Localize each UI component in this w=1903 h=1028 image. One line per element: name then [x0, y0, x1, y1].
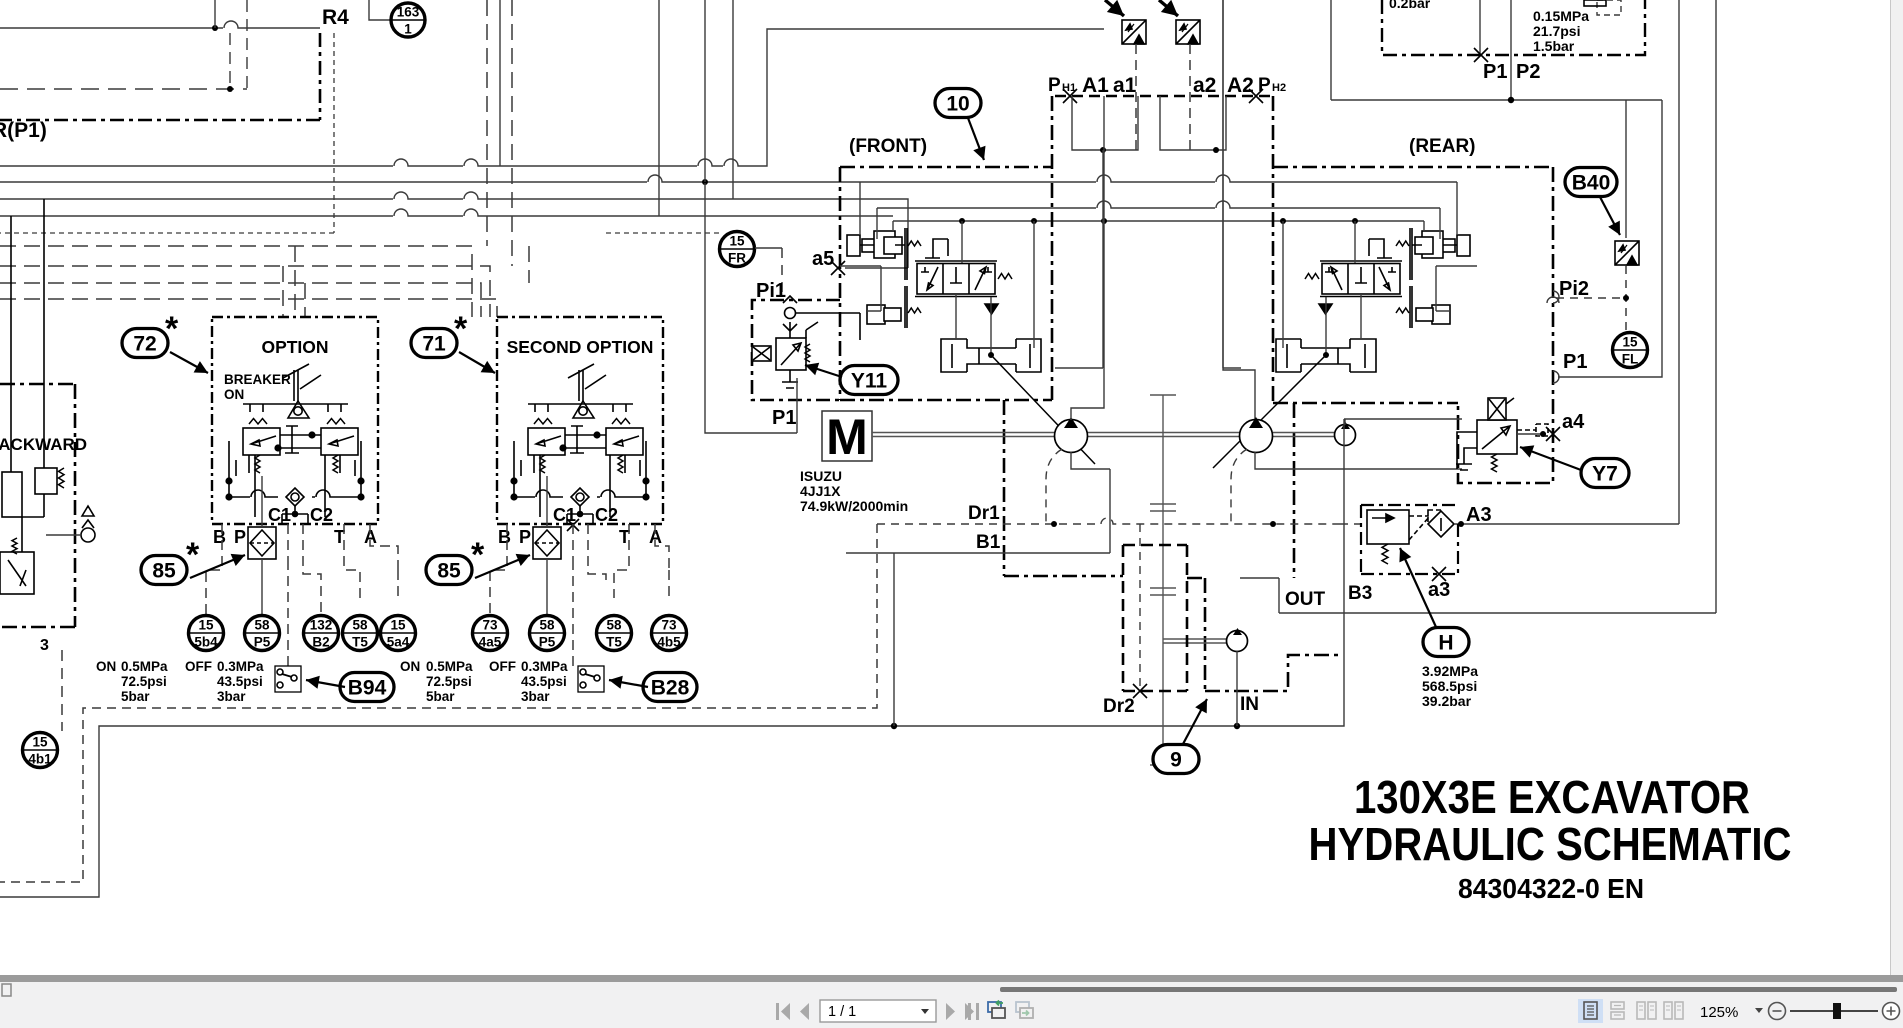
pilot valve group FRONT — [840, 182, 1041, 372]
pump circle front — [1055, 420, 1088, 453]
wire FR to Pi1 — [755, 247, 782, 249]
svg-text:Dr1: Dr1 — [968, 503, 1000, 524]
svg-text:*: * — [471, 536, 485, 574]
svg-text:a3: a3 — [1428, 579, 1450, 601]
svg-text:74.9kW/2000min: 74.9kW/2000min — [800, 498, 908, 514]
svg-text:a2: a2 — [1193, 74, 1216, 97]
svg-text:M: M — [826, 409, 868, 465]
svg-text:1.5bar: 1.5bar — [1533, 38, 1575, 54]
svg-text:58: 58 — [606, 618, 622, 633]
wire drops from OPTION ports — [206, 524, 398, 666]
svg-text:15: 15 — [198, 618, 214, 633]
svg-text:0.5MPa: 0.5MPa — [121, 659, 168, 674]
svg-text:C1: C1 — [553, 505, 576, 525]
pump 2 feedback diagonal — [1323, 352, 1329, 358]
wire bus inner 208 — [877, 201, 1440, 208]
arrow to solenoid a2 — [1159, 0, 1178, 16]
wire bus L4 — [0, 209, 893, 216]
svg-text:4JJ1X: 4JJ1X — [800, 483, 841, 499]
svg-text:15: 15 — [1622, 335, 1638, 350]
connector 163/1 lead — [369, 0, 390, 20]
wire A1 down — [1055, 150, 1103, 368]
motor M box — [822, 411, 872, 461]
wire PH1-PH2 dashed — [1055, 95, 1273, 97]
gearbox boundary — [1123, 545, 1187, 691]
svg-text:(REAR): (REAR) — [1409, 136, 1476, 157]
port labels PH1 A1 a1 a2 A2 PH2 — [1048, 74, 1286, 97]
connector label 163/1 — [391, 3, 425, 37]
valve block BACKWARD — [0, 199, 95, 627]
pump circle rear — [1240, 420, 1273, 453]
svg-text:0.3MPa: 0.3MPa — [521, 659, 568, 674]
wire fine dash toward FR — [606, 232, 723, 234]
arrow B40 — [1600, 197, 1620, 235]
svg-text:4b1: 4b1 — [28, 752, 52, 767]
svg-text:Pi2: Pi2 — [1559, 278, 1589, 300]
wire solid return bottom-left — [0, 613, 1344, 897]
solenoid valve B40 — [1615, 241, 1639, 265]
svg-text:T5: T5 — [606, 635, 622, 650]
svg-text:P: P — [234, 527, 246, 547]
svg-text:A1: A1 — [1082, 74, 1109, 97]
svg-text:72.5psi: 72.5psi — [426, 674, 472, 689]
svg-text:H2: H2 — [1272, 82, 1286, 94]
wire A2 port box — [1160, 96, 1226, 150]
callout B40 — [1565, 168, 1617, 197]
wire A3 — [1454, 0, 1679, 524]
pilot pump circle — [1335, 425, 1356, 446]
arrow B94 — [306, 676, 345, 689]
wire Dr2 dashed drop — [1139, 524, 1141, 691]
wire P1 drop — [705, 183, 797, 433]
top right dash-dot box — [1382, 0, 1645, 55]
svg-text:0.2bar: 0.2bar — [1389, 0, 1431, 11]
svg-text:9: 9 — [1170, 749, 1182, 772]
arrow Y7 — [1520, 445, 1581, 470]
wire a2 dashed drop — [1189, 44, 1191, 150]
svg-text:T5: T5 — [352, 635, 368, 650]
svg-text:B1: B1 — [976, 532, 1001, 553]
relief valve Y11 — [752, 322, 818, 388]
wire bus L2 — [0, 175, 1457, 182]
callout B28 — [643, 673, 697, 702]
svg-text:5bar: 5bar — [426, 689, 455, 704]
svg-text:15: 15 — [32, 735, 48, 750]
svg-text:85: 85 — [152, 560, 176, 583]
connector label 73/4b5 — [652, 616, 687, 651]
wire OUT box — [1240, 578, 1716, 613]
svg-text:21.7psi: 21.7psi — [1533, 23, 1580, 39]
svg-text:*: * — [454, 310, 468, 348]
small relief top right — [1597, 0, 1621, 15]
svg-text:R(P1): R(P1) — [0, 119, 47, 142]
svg-text:3bar: 3bar — [217, 689, 246, 704]
valve block OPTION (72) — [212, 317, 378, 547]
connector label 15/4b1 — [23, 733, 58, 768]
svg-text:P1: P1 — [1563, 351, 1587, 373]
svg-text:0.5MPa: 0.5MPa — [426, 659, 473, 674]
svg-text:OPTION: OPTION — [261, 337, 328, 357]
svg-text:5b4: 5b4 — [194, 635, 218, 650]
wire A2 into pump2 — [1223, 0, 1255, 419]
svg-text:*: * — [186, 536, 200, 574]
connector label 58/T5 left — [343, 616, 378, 651]
callout 71 — [411, 329, 457, 358]
pto pump circle — [1227, 631, 1248, 652]
svg-text:FR: FR — [728, 251, 746, 266]
connector label 15/FL — [1613, 333, 1648, 368]
svg-text:568.5psi: 568.5psi — [1422, 678, 1477, 694]
wire a5 line — [845, 267, 908, 269]
wire A1 into pump1 — [1071, 96, 1104, 420]
wire B1 — [846, 552, 1110, 554]
svg-text:71: 71 — [422, 333, 446, 356]
filter 85 under SECOND OPTION P — [533, 527, 561, 559]
pressure switch B94 — [275, 666, 301, 692]
svg-text:ON: ON — [400, 659, 420, 674]
svg-text:Dr2: Dr2 — [1103, 696, 1135, 717]
svg-text:4b5: 4b5 — [657, 635, 681, 650]
callout Y11 — [840, 366, 898, 395]
svg-text:15: 15 — [390, 618, 406, 633]
svg-text:5a4: 5a4 — [387, 635, 410, 650]
wire right border tall — [1715, 0, 1717, 613]
svg-text:C1: C1 — [268, 505, 291, 525]
label 0.15MPa — [1533, 8, 1589, 54]
svg-text:0.15MPa: 0.15MPa — [1533, 8, 1589, 24]
svg-text:B: B — [498, 527, 511, 547]
wire a1 dashed drop — [1135, 44, 1137, 150]
wire bus L3 — [0, 192, 908, 268]
engine label ISUZU — [800, 468, 908, 514]
wire Dr rear dashed to H — [1340, 523, 1367, 525]
svg-text:SECOND OPTION: SECOND OPTION — [507, 337, 654, 357]
pressure switch B28 — [578, 666, 604, 692]
wire Pi2 dashed — [1556, 266, 1626, 332]
svg-text:84304322-0 EN: 84304322-0 EN — [1458, 873, 1644, 904]
connector label 58/P5 left — [245, 616, 280, 651]
callout 10 — [935, 89, 981, 118]
arrow 10 — [968, 118, 986, 160]
svg-text:3bar: 3bar — [521, 689, 550, 704]
svg-text:HYDRAULIC SCHEMATIC: HYDRAULIC SCHEMATIC — [1309, 818, 1792, 870]
wire pilot feeders F — [859, 182, 861, 235]
pump 1 feedback diagonal — [988, 352, 994, 358]
svg-text:43.5psi: 43.5psi — [217, 674, 263, 689]
svg-text:P: P — [1048, 75, 1061, 96]
svg-text:0.3MPa: 0.3MPa — [217, 659, 264, 674]
callout 85 left — [141, 556, 187, 585]
callout H — [1423, 628, 1469, 657]
svg-text:72: 72 — [133, 333, 156, 356]
wire IN drop — [1236, 651, 1238, 726]
gear shaft vertical — [1150, 395, 1226, 765]
svg-text:OUT: OUT — [1285, 589, 1326, 610]
svg-text:P1: P1 — [772, 407, 796, 429]
svg-text:ISUZU: ISUZU — [800, 468, 842, 484]
check valve Pi1 — [783, 296, 860, 340]
svg-text:73: 73 — [661, 618, 677, 633]
wire to 15/4b1 — [61, 650, 63, 731]
svg-text:ON: ON — [96, 659, 116, 674]
svg-text:OFF: OFF — [489, 659, 516, 674]
svg-text:P1: P1 — [1483, 61, 1507, 83]
svg-text:3: 3 — [40, 637, 49, 654]
svg-text:3.92MPa: 3.92MPa — [1422, 663, 1478, 679]
svg-text:B40: B40 — [1572, 172, 1611, 195]
wire Dr1 dashed — [877, 518, 1340, 524]
wire A1 port box — [1072, 96, 1138, 150]
valve block Pi1/Y11 — [752, 300, 840, 400]
connector label 15/5a4 — [381, 616, 416, 651]
svg-text:R4: R4 — [322, 6, 349, 29]
wire R4 fine dashed vertical — [0, 33, 334, 233]
callout Y7 — [1581, 459, 1629, 488]
wire drops from SECOND OPTION ports — [490, 524, 669, 666]
callout 9 — [1153, 745, 1199, 774]
svg-text:B: B — [213, 527, 226, 547]
svg-text:132: 132 — [310, 618, 333, 633]
callout B94 — [340, 673, 394, 702]
svg-text:B3: B3 — [1348, 583, 1372, 604]
svg-text:4a5: 4a5 — [479, 635, 502, 650]
svg-text:ON: ON — [224, 387, 244, 402]
connector label 58/T5 right — [597, 616, 632, 651]
wire P drop SECOND OPTION — [546, 476, 548, 615]
pump unit 10 boundary — [840, 96, 1553, 691]
svg-text:C2: C2 — [310, 505, 333, 525]
svg-text:130X3E EXCAVATOR: 130X3E EXCAVATOR — [1354, 771, 1750, 823]
wire riser right of second option — [893, 553, 895, 726]
arrow to solenoid a1 — [1105, 0, 1124, 16]
svg-text:B94: B94 — [348, 677, 387, 700]
svg-text:IN: IN — [1240, 694, 1259, 715]
wire P1 loop — [1331, 0, 1662, 377]
svg-text:FL: FL — [1622, 352, 1639, 367]
callout 85 right — [426, 556, 472, 585]
svg-text:10: 10 — [946, 93, 969, 116]
solenoid valve a1 — [1122, 20, 1146, 44]
svg-text:1: 1 — [404, 22, 412, 37]
svg-text:a1: a1 — [1113, 74, 1137, 97]
regulator H — [1367, 510, 1442, 544]
svg-text:OFF: OFF — [185, 659, 212, 674]
connector label 132/B2 — [304, 616, 339, 651]
svg-text:P5: P5 — [539, 635, 556, 650]
wire dashed enclosure bottom-left — [0, 524, 877, 882]
svg-text:a4: a4 — [1562, 411, 1585, 433]
arrow 85 left — [190, 554, 245, 578]
svg-text:43.5psi: 43.5psi — [521, 674, 567, 689]
connector label 58/P5 right — [530, 616, 565, 651]
arrow 85 right — [475, 554, 530, 578]
arrow H — [1399, 548, 1436, 627]
svg-text:Y7: Y7 — [1592, 463, 1618, 486]
svg-text:*: * — [165, 310, 179, 348]
svg-text:a5: a5 — [812, 248, 834, 270]
wire pump outlets — [1071, 452, 1110, 553]
connector label 73/4a5 — [473, 616, 508, 651]
wire dashed pair top-left — [0, 0, 247, 92]
wire bus inner 221 — [893, 220, 1424, 222]
connector label 15/FR — [720, 232, 755, 267]
svg-text:72.5psi: 72.5psi — [121, 674, 167, 689]
callout 72 — [122, 329, 168, 358]
pressure note ON/OFF left — [96, 659, 568, 704]
svg-text:85: 85 — [437, 560, 461, 583]
svg-text:Y11: Y11 — [851, 370, 888, 393]
filter 85 under OPTION P — [248, 527, 276, 559]
shaft lines — [872, 433, 1335, 437]
svg-text:1 / 1: 1 / 1 — [828, 1004, 856, 1020]
wire P2 to B40 — [1625, 100, 1627, 238]
toolbar layout icons — [1578, 999, 1603, 1023]
valve block Y7 rear — [1456, 398, 1548, 470]
arrow Y11 — [805, 363, 842, 377]
arrow 72 to OPTION — [170, 352, 208, 373]
solenoid valve a2 — [1176, 20, 1200, 44]
toolbar nav controls — [776, 1003, 979, 1020]
wire P drop OPTION — [261, 476, 263, 615]
svg-text:(FRONT): (FRONT) — [849, 136, 927, 157]
svg-text:BREAKER: BREAKER — [224, 372, 291, 387]
wire pump suction dashed — [1046, 449, 1247, 524]
svg-text:15: 15 — [729, 234, 745, 249]
svg-text:5bar: 5bar — [121, 689, 150, 704]
svg-text:A3: A3 — [1466, 504, 1492, 526]
filter diamond A3 — [1428, 511, 1454, 537]
toolbar window icons — [988, 1001, 1033, 1019]
svg-text:P: P — [519, 527, 531, 547]
wire top-left solid to R4 — [0, 0, 320, 31]
svg-text:C2: C2 — [595, 505, 618, 525]
wire bus L1 — [0, 29, 1104, 166]
svg-text:H: H — [1438, 632, 1453, 655]
svg-text:58: 58 — [254, 618, 270, 633]
pilot valve group REAR — [1276, 182, 1477, 372]
svg-text:P2: P2 — [1516, 61, 1540, 83]
wire bus feeders from top — [500, 0, 733, 216]
node a3 — [1432, 567, 1446, 581]
wire R4 dash-dot — [0, 33, 320, 120]
wire dashed D1 — [0, 0, 529, 317]
svg-text:39.2bar: 39.2bar — [1422, 693, 1472, 709]
svg-text:B2: B2 — [312, 635, 329, 650]
svg-text:163: 163 — [397, 5, 420, 20]
svg-text:125%: 125% — [1700, 1004, 1738, 1021]
arrow B28 — [609, 676, 648, 689]
valve block SECOND OPTION (71) — [497, 317, 663, 547]
svg-text:58: 58 — [352, 618, 368, 633]
svg-text:P5: P5 — [254, 635, 271, 650]
wire B3/a3 dashdot — [1361, 505, 1458, 574]
svg-text:58: 58 — [539, 618, 555, 633]
wire hump Pi2 P1 on boundary — [1547, 297, 1559, 303]
connector label 15/5b4 — [189, 616, 224, 651]
arrow 9 — [1183, 699, 1207, 744]
arrow 71 to SECOND OPTION — [459, 352, 495, 373]
svg-text:A2: A2 — [1227, 74, 1254, 97]
svg-text:B28: B28 — [651, 677, 690, 700]
wire A2 down — [1223, 0, 1241, 368]
svg-text:73: 73 — [482, 618, 498, 633]
label 3.92MPa — [1422, 663, 1478, 709]
